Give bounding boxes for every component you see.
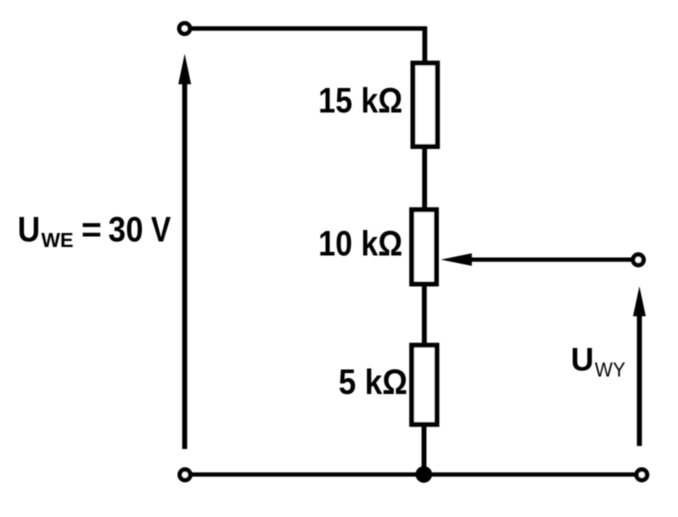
resistor R1 15k body [413, 63, 438, 146]
resistor R2 10k potentiometer body [412, 210, 437, 284]
terminal bottom-left [180, 470, 191, 481]
resistor R3 5k body [412, 345, 437, 424]
terminal wiper right [633, 254, 644, 265]
wire bottom horizontal [191, 472, 637, 476]
node junction dot [416, 466, 433, 483]
svg-text:=: = [81, 210, 101, 249]
wire top vertical drop [422, 27, 427, 64]
arrow U_WE head [178, 54, 191, 85]
svg-text:V: V [151, 210, 171, 249]
svg-text:U: U [571, 342, 594, 378]
svg-text:10 kΩ: 10 kΩ [318, 223, 402, 262]
arrow U_WE shaft [182, 83, 187, 449]
terminal bottom-right [637, 470, 648, 481]
svg-text:15 kΩ: 15 kΩ [318, 80, 402, 119]
wire R3 to bottom node [422, 424, 427, 474]
wiper arrow head [441, 253, 472, 266]
label U_WY [571, 342, 626, 382]
wire top horizontal [190, 26, 427, 31]
wire R1 to R2 [422, 147, 427, 210]
label U_WE = 30 V [18, 210, 172, 252]
svg-text:U: U [18, 211, 40, 250]
arrow U_WY shaft [637, 315, 642, 446]
svg-text:WE: WE [41, 230, 73, 252]
svg-text:30: 30 [108, 211, 143, 250]
terminal top-left [179, 23, 190, 34]
arrow U_WY head [633, 286, 646, 316]
wire R2 to R3 [422, 284, 427, 345]
wiper wire [471, 258, 633, 262]
svg-text:5 kΩ: 5 kΩ [339, 364, 408, 403]
svg-text:WY: WY [595, 359, 626, 382]
